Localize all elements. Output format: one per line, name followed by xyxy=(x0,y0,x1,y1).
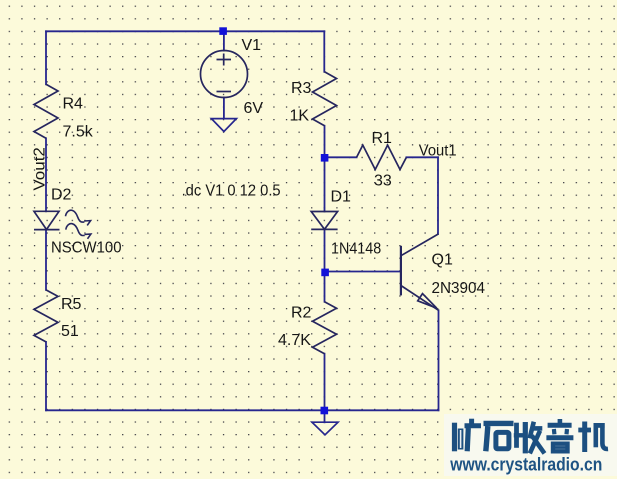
svg-text:7.5k: 7.5k xyxy=(63,124,94,141)
wire base of Q1 xyxy=(325,271,401,273)
junction node D1/R2/base xyxy=(321,269,329,277)
svg-text:.dc V1 0 12 0.5: .dc V1 0 12 0.5 xyxy=(182,182,281,199)
svg-text:R4: R4 xyxy=(63,96,84,113)
svg-text:1N4148: 1N4148 xyxy=(331,241,381,258)
junction node bottom xyxy=(321,407,329,415)
D2 light arrow 1 xyxy=(66,210,85,222)
svg-text:Vout1: Vout1 xyxy=(419,143,457,160)
wire Vout1 vertical to collector xyxy=(437,157,439,234)
voltage source V1 circle xyxy=(201,51,248,98)
wire V1 bottom lead to ground xyxy=(223,97,225,118)
svg-text:Vout2: Vout2 xyxy=(32,147,49,191)
char kuang xyxy=(452,423,457,452)
D2 light arrow 2 xyxy=(66,224,85,236)
diode D1 xyxy=(311,212,337,230)
wire top-left vertical to R4 xyxy=(45,31,47,84)
wire top-right vertical to R3 xyxy=(323,31,325,72)
wire R4 to D2 xyxy=(45,138,47,211)
transistor Q1 emitter xyxy=(401,286,439,311)
wire R5 to bottom-left corner xyxy=(45,342,47,410)
wire V1 top lead xyxy=(223,31,225,50)
wire bottom ground stub xyxy=(324,410,326,422)
junction node at V1 top xyxy=(219,27,227,35)
char ji xyxy=(582,422,587,453)
resistor R4 xyxy=(34,84,58,138)
watermark chinese logo xyxy=(455,419,609,454)
svg-text:D2: D2 xyxy=(51,187,72,204)
resistor R1 xyxy=(357,145,407,169)
transistor Q1 emitter arrow xyxy=(418,294,437,309)
char shou xyxy=(514,423,519,448)
wire R3 to D1 through node xyxy=(324,126,326,212)
wire R2 to bottom node xyxy=(324,354,326,411)
svg-text:4.7K: 4.7K xyxy=(278,332,311,349)
V1 plus sign xyxy=(217,54,232,66)
svg-text:www.crystalradio.cn: www.crystalradio.cn xyxy=(449,455,602,475)
watermark background xyxy=(444,414,617,476)
char yin xyxy=(558,419,563,424)
wire top horizontal xyxy=(46,30,324,32)
diode D2 (LED) xyxy=(34,211,60,229)
svg-text:51: 51 xyxy=(61,323,79,340)
svg-text:6V: 6V xyxy=(244,100,264,117)
svg-text:R1: R1 xyxy=(372,130,393,147)
svg-text:R3: R3 xyxy=(291,80,312,97)
svg-text:R2: R2 xyxy=(291,305,312,322)
svg-text:1K: 1K xyxy=(290,108,310,125)
svg-text:2N3904: 2N3904 xyxy=(432,280,486,297)
svg-text:D1: D1 xyxy=(331,189,352,206)
svg-text:V1: V1 xyxy=(242,37,262,54)
ground at bottom xyxy=(312,422,338,435)
resistor R5 xyxy=(34,290,58,342)
V1 minus sign xyxy=(217,91,232,93)
wire emitter vertical to bottom xyxy=(438,310,440,410)
svg-text:33: 33 xyxy=(374,173,392,190)
transistor Q1 collector xyxy=(401,234,439,256)
char shi xyxy=(484,421,514,426)
resistor R2 xyxy=(313,302,337,354)
svg-text:R5: R5 xyxy=(61,296,82,313)
wire D2 to R5 xyxy=(45,230,47,290)
resistor R3 xyxy=(313,72,337,126)
ground under V1 xyxy=(211,119,236,132)
wire R1 left lead xyxy=(325,156,357,158)
transistor Q1 base bar xyxy=(400,246,402,296)
svg-text:NSCW100: NSCW100 xyxy=(51,239,122,256)
wire D1 to R2 through node xyxy=(324,229,326,301)
wire bottom horizontal xyxy=(46,409,439,411)
wire R1 right lead to Vout1 corner xyxy=(406,156,438,158)
junction node R3/R1/D1 xyxy=(321,154,329,162)
svg-text:Q1: Q1 xyxy=(432,252,453,269)
